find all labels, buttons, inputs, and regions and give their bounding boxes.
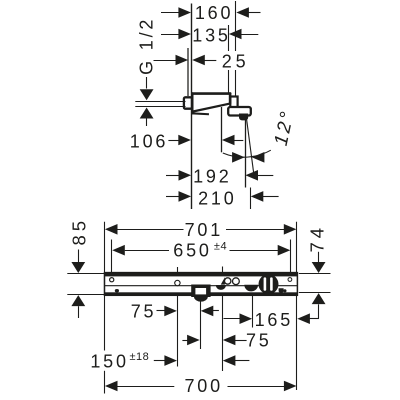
ext line R centerline (x=222.3)	[222, 267, 224, 372]
stream vertical line	[245, 119, 247, 188]
svg-text:160: 160	[195, 3, 233, 23]
74 leader	[318, 252, 320, 262]
extension 650 left	[111, 240, 113, 274]
wedge marker	[221, 277, 225, 284]
svg-text:85: 85	[69, 217, 90, 246]
dim 75b line	[182, 340, 188, 342]
spout centerline	[221, 107, 223, 152]
arrow 192 right	[245, 170, 258, 181]
knob disc	[259, 274, 279, 294]
extension 650 right	[290, 240, 292, 274]
arrow 12deg left	[232, 152, 245, 163]
body diagonal	[193, 103, 230, 113]
pipe riser thin line	[187, 48, 189, 96]
arrow 210 right	[251, 191, 264, 202]
arrow 74 up	[312, 293, 326, 304]
svg-text:165: 165	[255, 310, 293, 330]
svg-text:150: 150	[90, 351, 128, 371]
ext line S (x=252.6)	[252, 296, 254, 328]
arrow 701 right	[284, 224, 297, 235]
spout arm	[228, 107, 251, 116]
svg-text:5: 5	[236, 52, 249, 72]
svg-text:210: 210	[198, 189, 236, 209]
circle small 2	[233, 278, 240, 285]
arrow 135 right	[229, 29, 242, 40]
arrow 12deg right	[252, 152, 265, 163]
arrow 150 left	[164, 355, 177, 366]
svg-text:75: 75	[246, 331, 272, 351]
body bottom flap	[192, 112, 210, 115]
G12 leader	[146, 77, 148, 89]
bar top band	[104, 273, 298, 277]
arrow 150 right	[223, 355, 236, 366]
85 extension lines	[67, 273, 104, 275]
aerator nub	[239, 114, 248, 121]
extension 701/700 right	[296, 222, 298, 390]
shower bar outline	[104, 273, 298, 302]
arrow 25 right	[192, 55, 205, 66]
circle small 1	[225, 278, 231, 284]
svg-text:700: 700	[184, 376, 222, 396]
dot left	[115, 289, 119, 292]
dim 165 line	[224, 318, 241, 320]
dim 700 line	[117, 386, 174, 388]
dim 160 line	[161, 12, 179, 14]
arrowheads	[71, 7, 325, 391]
extension line 160 (x=236)	[235, 1, 237, 51]
dim 75a line	[157, 310, 166, 312]
dim 106 line	[168, 140, 179, 142]
svg-text:2: 2	[222, 52, 235, 72]
74 extension lines	[299, 273, 331, 275]
arrow 75a left	[164, 306, 177, 317]
arrow 160 left	[178, 7, 191, 18]
spout step	[230, 97, 237, 108]
dim 650 line	[125, 250, 169, 252]
knob slit 1	[264, 277, 267, 290]
svg-text:135: 135	[192, 25, 230, 45]
arrow 165 right	[297, 313, 310, 324]
dim 701 line	[117, 229, 183, 231]
ext line Q (x=200.2)	[200, 301, 202, 349]
bar bottom band	[104, 292, 298, 295]
arrow 700 right	[284, 381, 297, 392]
dim 210 line	[166, 196, 179, 198]
85 leader	[78, 250, 80, 263]
holder bump	[194, 297, 208, 302]
arrow 75a right	[201, 306, 214, 317]
arrow 106 left	[178, 135, 191, 146]
screw circle left	[110, 278, 114, 282]
arrow G12 up	[140, 108, 154, 119]
wall line	[191, 4, 193, 210]
extension line 210	[250, 188, 252, 210]
holder window	[195, 288, 206, 294]
svg-text:±18: ±18	[130, 351, 150, 363]
arrow 210 left	[179, 191, 192, 202]
arrow 85 down	[71, 262, 85, 273]
svg-text:75: 75	[131, 301, 157, 321]
stream angled line 12deg	[246, 117, 254, 174]
marker circle P	[175, 280, 180, 285]
dim 135 line	[161, 34, 179, 36]
bump right of knob	[279, 288, 284, 292]
spout bowl	[244, 285, 258, 292]
spout body	[184, 92, 251, 120]
arrow 700 left	[105, 381, 118, 392]
body right edge	[229, 92, 232, 104]
svg-text:G 1/2: G 1/2	[137, 17, 157, 75]
holder bracket	[191, 285, 210, 298]
dot right	[283, 289, 286, 292]
wall stub	[184, 97, 192, 108]
svg-text:192: 192	[193, 166, 231, 186]
arrow G12 down	[140, 89, 154, 100]
dim 150 line	[154, 360, 167, 362]
extension line 135 (x=228.7)	[228, 25, 230, 51]
arrow 650 left	[112, 245, 125, 256]
arrow 85 up	[71, 295, 85, 306]
arrow 650 right	[278, 245, 291, 256]
dim 192 line	[166, 175, 179, 177]
knob slit 2	[270, 277, 273, 290]
arrow 192 left	[179, 170, 192, 181]
arrow 135 left	[178, 29, 191, 40]
bar divider line	[105, 285, 298, 287]
ext line P (x=177.4) through bar	[177, 267, 179, 367]
svg-text:650: 650	[173, 241, 211, 261]
body left edge	[191, 92, 194, 114]
ring right	[288, 278, 292, 282]
svg-text:701: 701	[185, 220, 223, 240]
supply pipe double lines	[135, 101, 185, 103]
svg-text:±4: ±4	[214, 240, 227, 252]
arrow 25 left	[176, 55, 189, 66]
dim 25 line	[154, 60, 177, 62]
12deg dim arc	[223, 150, 271, 157]
body top band	[191, 92, 231, 95]
arrow 160 right	[236, 7, 249, 18]
svg-text:106: 106	[130, 131, 168, 151]
arrow 701 left	[105, 224, 118, 235]
svg-text:74: 74	[307, 224, 328, 253]
arrow 165 left	[240, 313, 253, 324]
arrow 75b left	[187, 335, 200, 346]
arrow 74 down	[312, 262, 326, 273]
arrow 106 right	[222, 135, 235, 146]
bump at centerline	[216, 285, 226, 290]
extension 701/700 left (gapped at 150 text)	[104, 222, 106, 351]
arrow 75b right	[223, 335, 236, 346]
